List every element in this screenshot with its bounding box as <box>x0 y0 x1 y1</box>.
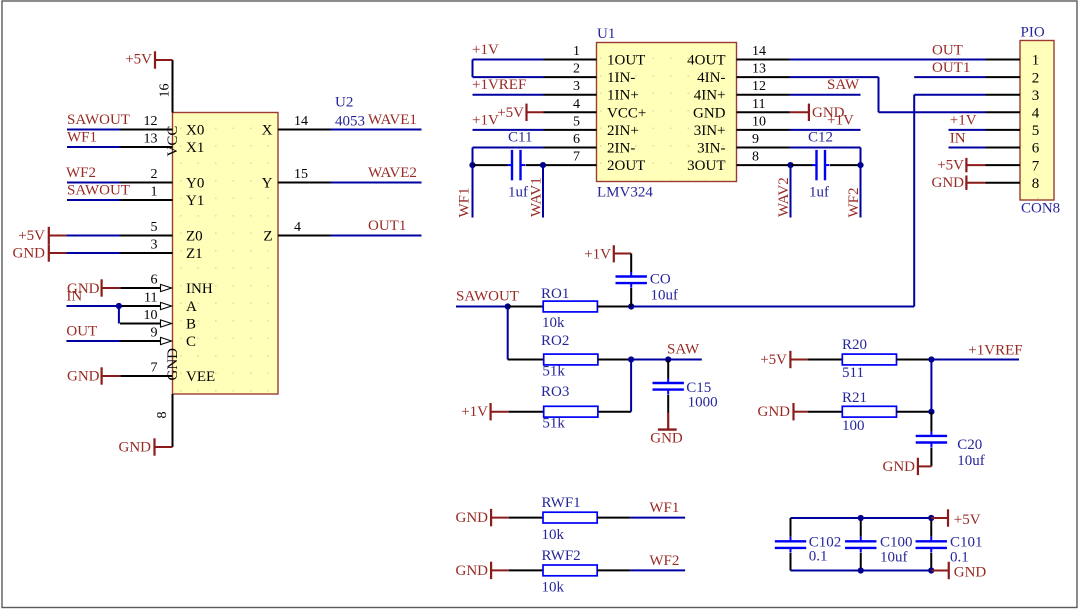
svg-text:1OUT: 1OUT <box>607 53 645 69</box>
svg-text:13: 13 <box>752 62 766 77</box>
svg-text:1: 1 <box>151 185 158 200</box>
wire RWF1 left pin <box>509 517 543 519</box>
svg-text:1: 1 <box>1032 53 1040 69</box>
svg-text:WF1: WF1 <box>67 130 97 146</box>
wire WF1 stub <box>630 517 685 519</box>
wire C102 bottom pin <box>790 553 792 571</box>
power +5V at U1 pin 4 <box>497 104 543 121</box>
ground GND below C15 <box>650 413 683 447</box>
wire GND to pin 3 <box>66 252 120 254</box>
ground GND at PIO pin 8 <box>932 175 986 191</box>
svg-text:12: 12 <box>752 79 766 94</box>
wire SAW down to C15 <box>667 360 669 379</box>
svg-text:C: C <box>186 334 196 350</box>
node junction C101 bottom <box>928 567 934 573</box>
wire +1VREF down to R21 <box>930 360 932 412</box>
pin 3 of PIO <box>986 94 1021 96</box>
svg-text:GND: GND <box>456 510 489 526</box>
wire X to WAVE1 <box>331 129 422 131</box>
wire U1 pin 9 feedback <box>790 147 861 149</box>
power +5V at R20 <box>760 351 807 368</box>
op-amp U2 body (4053 analog switch) <box>173 113 279 395</box>
svg-text:511: 511 <box>842 365 864 381</box>
svg-text:U1: U1 <box>597 26 615 42</box>
wire WF1 drop <box>472 165 474 217</box>
pin 8 of U1 <box>737 164 790 166</box>
node junction C12 left <box>787 162 793 168</box>
capacitor C11 <box>508 150 526 180</box>
wire C101 bottom pin <box>930 553 932 571</box>
power +5V at U2 pin 16 <box>125 51 172 68</box>
wire +1V to PIO pin 5 <box>949 129 986 131</box>
node junction +1VREF <box>928 356 934 362</box>
pin 3 of U1 <box>544 94 597 96</box>
wire R21 right pin <box>897 411 932 413</box>
capacitor CO <box>616 272 647 288</box>
node junction C11 right <box>540 162 546 168</box>
svg-text:16: 16 <box>158 84 173 98</box>
resistor R21 <box>842 406 896 417</box>
svg-text:U2: U2 <box>335 95 353 111</box>
wire RO3 left pin <box>509 411 544 413</box>
node junction at pin 11 <box>116 303 122 309</box>
pin 15 of U2 (Y output) <box>278 182 331 184</box>
svg-text:GND: GND <box>119 440 152 456</box>
svg-text:2: 2 <box>1032 70 1040 86</box>
pin 13 of U1 <box>737 76 790 78</box>
ground GND at decoupling rail <box>931 562 986 581</box>
svg-text:10: 10 <box>752 114 766 129</box>
svg-text:LMV324: LMV324 <box>597 185 653 201</box>
wire SAW stub <box>668 359 702 361</box>
svg-text:+1V: +1V <box>584 247 611 263</box>
wire SAWOUT to pin 1 <box>67 199 120 201</box>
svg-text:IN: IN <box>950 131 966 147</box>
pin 4 of U2 (Z output) <box>278 235 331 237</box>
svg-text:GND: GND <box>954 564 987 580</box>
wire Z to OUT1 <box>331 235 422 237</box>
wire +1V at U1 pin 10 <box>790 129 861 131</box>
svg-text:C20: C20 <box>957 437 982 453</box>
wire pin9 down to C12 node <box>860 148 862 166</box>
svg-text:1: 1 <box>573 44 580 59</box>
connector PIO body (CON8) <box>1020 41 1054 201</box>
svg-text:1uf: 1uf <box>809 185 829 201</box>
wire OUT to pin 9 <box>66 340 120 342</box>
svg-text:WF1: WF1 <box>649 500 679 516</box>
svg-text:Z1: Z1 <box>186 246 203 262</box>
svg-text:VCC+: VCC+ <box>607 105 646 121</box>
svg-text:GND: GND <box>932 175 965 191</box>
svg-text:X0: X0 <box>186 122 204 138</box>
svg-text:+5V: +5V <box>954 512 981 528</box>
node junction SAW <box>665 356 671 362</box>
pin 12 of U2 <box>120 129 173 131</box>
op-amp U1 body (LMV324) <box>597 43 737 182</box>
ground GND at R21 <box>758 403 808 420</box>
svg-text:0.1: 0.1 <box>950 550 969 566</box>
power +5V at decoupling rail <box>931 509 980 528</box>
pin 5 of PIO <box>986 129 1021 131</box>
wire RO1 out to PIO3 vertical <box>631 306 914 308</box>
ground GND at U2 pin 6 INH <box>67 279 121 297</box>
svg-text:1IN+: 1IN+ <box>607 88 639 104</box>
svg-text:B: B <box>186 316 196 332</box>
ground GND at U2 pin 3 <box>13 244 67 261</box>
node junction RO1 out <box>628 303 634 309</box>
svg-text:X: X <box>262 122 273 138</box>
svg-text:6: 6 <box>1032 141 1040 157</box>
resistor RWF1 <box>543 512 597 523</box>
pin 1 of U1 <box>544 59 597 61</box>
wire to PIO pin 4 <box>879 111 986 113</box>
wire RO2 right pin <box>598 359 631 361</box>
pin 10 of U2 (input) <box>120 323 163 325</box>
wire RO3 right pin <box>598 411 631 413</box>
pin 11 of U2 (input) <box>120 305 163 307</box>
power +1V at CO <box>584 245 631 262</box>
svg-text:R21: R21 <box>842 390 867 406</box>
svg-text:SAW: SAW <box>827 77 860 93</box>
svg-text:10k: 10k <box>542 527 565 543</box>
svg-text:Y1: Y1 <box>186 193 204 209</box>
wire R20 right pin <box>897 359 932 361</box>
svg-text:C11: C11 <box>508 130 532 146</box>
svg-text:4: 4 <box>573 97 580 112</box>
wire U2 pin 8 to GND <box>172 394 174 447</box>
wire top rail decoupling caps <box>791 517 932 519</box>
power +5V at U2 pin 5 <box>18 227 66 244</box>
svg-text:+5V: +5V <box>18 228 45 244</box>
svg-text:RO3: RO3 <box>541 384 569 400</box>
wire C11 row left <box>473 164 509 166</box>
wire RO2 node down to RO3 <box>630 360 632 412</box>
svg-text:3IN-: 3IN- <box>697 141 725 157</box>
wire IN to pin 11 <box>66 305 119 307</box>
wire U1 pin13 right <box>790 76 879 78</box>
ground GND at RWF2 <box>456 562 509 579</box>
pin 10 of U1 <box>737 129 790 131</box>
svg-text:8: 8 <box>155 412 170 419</box>
resistor RO2 <box>544 354 598 365</box>
wire WF2 stub <box>630 569 685 571</box>
wire CO to node <box>630 288 632 307</box>
svg-text:WF2: WF2 <box>649 553 679 569</box>
wire RO1 left pin <box>508 306 544 308</box>
svg-text:7: 7 <box>151 361 158 376</box>
svg-text:10k: 10k <box>542 580 565 596</box>
svg-text:GND: GND <box>13 246 46 262</box>
svg-text:Z: Z <box>263 228 272 244</box>
svg-text:+5V: +5V <box>760 352 787 368</box>
pin 1 of U2 <box>120 199 173 201</box>
svg-text:VEE: VEE <box>186 369 215 385</box>
svg-text:WAVE1: WAVE1 <box>368 112 417 128</box>
svg-text:IN: IN <box>66 289 82 305</box>
svg-text:1uf: 1uf <box>508 185 528 201</box>
svg-text:CON8: CON8 <box>1021 201 1060 217</box>
wire WF2 to pin 2 <box>67 182 120 184</box>
svg-text:OUT1: OUT1 <box>932 60 970 76</box>
capacitor C102 <box>775 537 806 553</box>
svg-text:GND: GND <box>758 404 791 420</box>
wire Y to WAVE2 <box>331 182 422 184</box>
resistor R20 <box>842 354 896 365</box>
svg-text:3OUT: 3OUT <box>687 158 725 174</box>
svg-text:RO1: RO1 <box>541 286 569 302</box>
svg-text:9: 9 <box>151 326 158 341</box>
wire bottom rail decoupling caps <box>791 570 932 572</box>
pin 6 of U2 (input) <box>120 287 163 289</box>
pin 14 of U1 <box>737 59 790 61</box>
pin 4 of PIO <box>986 111 1021 113</box>
svg-text:4IN-: 4IN- <box>697 70 725 86</box>
svg-text:+1V: +1V <box>827 112 854 128</box>
ground GND at U2 pin 8 <box>119 438 173 455</box>
svg-text:2: 2 <box>573 62 580 77</box>
wire PIO pin3 vertical down to RO1 node <box>913 95 915 307</box>
wire WAV1 drop <box>542 165 544 217</box>
node junction C11 left <box>469 162 475 168</box>
svg-text:10uf: 10uf <box>957 453 985 469</box>
svg-text:WF2: WF2 <box>846 188 862 218</box>
svg-text:4IN+: 4IN+ <box>694 88 726 104</box>
wire pin6 down to C11 node <box>472 148 474 166</box>
pin 13 of U2 <box>120 146 173 148</box>
svg-text:Y0: Y0 <box>186 175 204 191</box>
wire RO2 out to SAW <box>631 359 668 361</box>
svg-text:+1V: +1V <box>472 42 499 58</box>
svg-text:Y: Y <box>262 175 273 191</box>
wire RWF2 right pin <box>597 569 630 571</box>
ground GND below C20 <box>883 458 932 475</box>
svg-text:11: 11 <box>752 97 765 112</box>
svg-text:PIO: PIO <box>1021 25 1045 41</box>
svg-text:2OUT: 2OUT <box>607 158 645 174</box>
pin 7 of U2 <box>120 375 173 377</box>
wire RO2 left pin <box>508 359 544 361</box>
svg-text:SAWOUT: SAWOUT <box>67 112 130 128</box>
wire PIO pin3 net <box>914 94 985 96</box>
pin 12 of U1 <box>737 94 790 96</box>
wire SAWOUT <box>456 306 508 308</box>
wire WF2 drop <box>860 165 862 217</box>
wire RWF2 left pin <box>509 569 543 571</box>
pin 2 of PIO <box>986 76 1021 78</box>
wire R21 left pin <box>808 411 843 413</box>
svg-text:11: 11 <box>144 291 157 306</box>
svg-text:C12: C12 <box>808 130 833 146</box>
wire C20 to GND <box>930 448 932 467</box>
wire C12 row right <box>830 164 861 166</box>
svg-text:8: 8 <box>1032 176 1040 192</box>
resistor RO1 <box>543 301 597 312</box>
wire +1V to U1 pin 5 <box>473 129 544 131</box>
svg-text:RWF2: RWF2 <box>542 548 581 564</box>
svg-text:+1V: +1V <box>461 404 488 420</box>
svg-text:SAWOUT: SAWOUT <box>67 183 130 199</box>
svg-text:OUT1: OUT1 <box>368 218 406 234</box>
svg-text:WAV2: WAV2 <box>776 177 792 217</box>
svg-text:3IN+: 3IN+ <box>694 123 726 139</box>
svg-text:3: 3 <box>1032 88 1040 104</box>
svg-text:CO: CO <box>650 271 671 287</box>
svg-text:15: 15 <box>294 167 308 182</box>
svg-text:4: 4 <box>294 220 301 235</box>
wire WAV2 drop <box>790 165 792 217</box>
svg-text:10uf: 10uf <box>880 549 908 565</box>
wire +5V to pin 5 <box>66 235 120 237</box>
power +5V at PIO pin 7 <box>937 158 985 174</box>
svg-text:GND: GND <box>650 431 683 447</box>
wire C102 top pin <box>790 518 792 537</box>
pin 6 of PIO <box>986 147 1021 149</box>
wire SAW at U1 pin 12 <box>790 94 861 96</box>
pin 3 of U2 <box>120 252 173 254</box>
svg-text:INH: INH <box>186 281 213 297</box>
svg-text:+5V: +5V <box>497 105 524 121</box>
node junction C12 right <box>857 162 863 168</box>
svg-text:Z0: Z0 <box>186 228 203 244</box>
svg-text:2IN+: 2IN+ <box>607 123 639 139</box>
svg-text:C100: C100 <box>880 534 913 550</box>
svg-text:SAWOUT: SAWOUT <box>456 289 519 305</box>
pin 5 of U2 <box>120 235 173 237</box>
ground GND at U1 pin 11 <box>790 104 845 121</box>
wire +1VREF stub <box>931 359 1019 361</box>
wire C12 row left <box>791 164 813 166</box>
svg-text:8: 8 <box>752 150 759 165</box>
svg-text:2IN-: 2IN- <box>607 141 635 157</box>
wire junction down to pin 10 <box>118 306 120 324</box>
svg-text:1000: 1000 <box>688 395 718 411</box>
svg-text:4OUT: 4OUT <box>687 53 725 69</box>
resistor RO3 <box>544 406 598 417</box>
node junction C100 top <box>858 515 864 521</box>
svg-text:GND: GND <box>456 563 489 579</box>
svg-text:5: 5 <box>1032 123 1040 139</box>
wire WF1 to pin 13 <box>67 146 120 148</box>
svg-text:5: 5 <box>151 220 158 235</box>
svg-text:+1V: +1V <box>950 112 977 128</box>
svg-text:51k: 51k <box>542 364 565 380</box>
svg-text:+1VREF: +1VREF <box>968 343 1022 359</box>
wire to U1 pin 2 <box>473 76 544 78</box>
wire U1 pin 6 feedback <box>473 147 544 149</box>
pin 2 of U1 <box>544 76 597 78</box>
pin 1 of PIO <box>986 59 1021 61</box>
svg-text:6: 6 <box>573 132 580 147</box>
wire pin13 down <box>878 77 880 112</box>
svg-text:+5V: +5V <box>125 52 152 68</box>
svg-text:R20: R20 <box>842 337 867 353</box>
pin 14 of U2 (X output) <box>278 129 331 131</box>
svg-text:OUT: OUT <box>66 324 97 340</box>
svg-text:3: 3 <box>573 79 580 94</box>
capacitor C101 <box>916 537 947 553</box>
svg-text:GND: GND <box>693 105 726 121</box>
wire R21 node down to C20 <box>930 412 932 432</box>
wire +1V to CO <box>630 254 632 273</box>
svg-text:14: 14 <box>752 44 766 59</box>
node junction C100 bottom <box>858 567 864 573</box>
resistor RWF2 <box>543 565 597 576</box>
pin 7 of U1 <box>544 164 597 166</box>
power +1V at RO3 <box>461 403 508 420</box>
wire OUT1 stub to PIO pin2 <box>914 76 985 78</box>
svg-text:+1V: +1V <box>472 112 499 128</box>
capacitor C15 <box>653 379 684 395</box>
wire +5V to U2 pin 16 <box>172 60 174 113</box>
svg-text:4053: 4053 <box>335 114 365 130</box>
svg-text:RO2: RO2 <box>541 333 569 349</box>
wire C100 bottom pin <box>860 553 862 571</box>
svg-text:+1VREF: +1VREF <box>472 77 526 93</box>
wire +1V to U1 pin 1 <box>473 59 544 61</box>
svg-text:GND: GND <box>883 459 916 475</box>
wire RO1 right pin <box>597 306 631 308</box>
svg-text:X1: X1 <box>186 140 204 156</box>
wire +1VREF to U1 pin 3 <box>473 94 544 96</box>
svg-text:7: 7 <box>573 150 580 165</box>
svg-text:2: 2 <box>151 167 158 182</box>
pin 6 of U1 <box>544 147 597 149</box>
svg-text:51k: 51k <box>542 416 565 432</box>
ground GND at U2 pin 7 VEE <box>67 367 121 384</box>
pin 5 of U1 <box>544 129 597 131</box>
svg-text:+5V: +5V <box>937 158 964 174</box>
svg-text:10: 10 <box>144 308 158 323</box>
svg-text:1IN-: 1IN- <box>607 70 635 86</box>
svg-text:3: 3 <box>151 238 158 253</box>
svg-text:7: 7 <box>1032 158 1040 174</box>
node junction R21 out <box>928 409 934 415</box>
svg-text:WAV1: WAV1 <box>529 177 545 217</box>
wire OUT net U1 pin14 to PIO pin1 <box>790 59 986 61</box>
svg-text:10uf: 10uf <box>651 288 679 304</box>
svg-text:A: A <box>186 299 197 315</box>
node junction RO2 out <box>628 356 634 362</box>
wire R20 left pin <box>808 359 843 361</box>
wire RWF1 right pin <box>597 517 630 519</box>
svg-text:4: 4 <box>1032 106 1040 122</box>
svg-text:10k: 10k <box>542 315 565 331</box>
wire C100 top pin <box>860 518 862 537</box>
node junction C101 top <box>928 515 934 521</box>
svg-text:13: 13 <box>144 132 158 147</box>
svg-text:WF2: WF2 <box>66 165 96 181</box>
wire C15 to GND <box>667 395 669 413</box>
ground GND at RWF1 <box>456 509 509 526</box>
svg-text:100: 100 <box>842 418 865 434</box>
wire SAWOUT down to RO2 <box>507 307 509 360</box>
capacitor C20 <box>916 431 947 447</box>
pin 2 of U2 <box>120 182 173 184</box>
pin 11 of U1 <box>737 111 790 113</box>
svg-text:GND: GND <box>67 368 100 384</box>
capacitor C100 <box>845 537 876 553</box>
pin 9 of U2 (input) <box>120 340 163 342</box>
node junction SAWOUT <box>505 303 511 309</box>
wire C11 row right <box>526 164 544 166</box>
svg-text:6: 6 <box>151 273 158 288</box>
pin 8 of PIO <box>986 182 1021 184</box>
wire SAWOUT to pin 12 <box>67 129 120 131</box>
svg-text:SAW: SAW <box>667 342 700 358</box>
pin 9 of U1 <box>737 147 790 149</box>
pin 7 of PIO <box>986 164 1021 166</box>
svg-text:14: 14 <box>294 114 308 129</box>
